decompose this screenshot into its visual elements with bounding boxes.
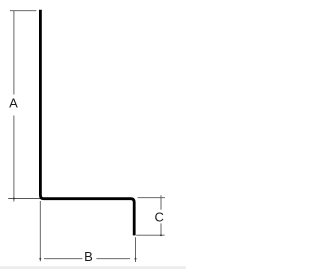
bottom divider band bbox=[0, 266, 186, 269]
dimension A endpoint dot bottom bbox=[13, 198, 15, 200]
dimension C bottom extension line bbox=[136, 234, 164, 236]
svg-text:C: C bbox=[155, 210, 164, 225]
dimension C line lower segment bbox=[160, 223, 162, 235]
dimension C line upper segment bbox=[160, 195, 162, 210]
dimension A line lower segment bbox=[13, 116, 15, 202]
dimension B right extension line bbox=[135, 237, 137, 262]
dimension A line upper segment bbox=[13, 11, 15, 95]
dimension A bottom extension line bbox=[8, 198, 41, 200]
dimension C top extension line bbox=[138, 197, 165, 199]
svg-text:B: B bbox=[84, 249, 93, 264]
dimension B line right segment bbox=[96, 258, 130, 260]
dimension B line left segment bbox=[44, 258, 82, 260]
profile outline (L-shaped flashing: vertical leg, bottom leg, right lip) bbox=[40, 10, 134, 236]
dimension B endpoint dot right bbox=[135, 258, 137, 260]
dimension B left extension line bbox=[39, 201, 41, 261]
dimension A top extension line bbox=[10, 10, 36, 12]
dimension C endpoint dot bottom bbox=[160, 234, 162, 236]
svg-text:A: A bbox=[9, 96, 18, 111]
dimension B endpoint dot left bbox=[39, 258, 41, 260]
